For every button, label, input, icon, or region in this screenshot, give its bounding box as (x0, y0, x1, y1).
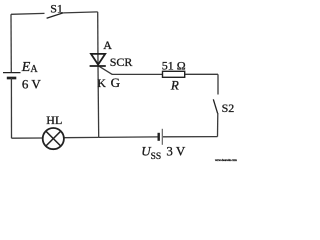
wire top left segment (11, 12, 45, 15)
battery EA negative plate (short thick) (7, 77, 16, 80)
wire bottom left segment (12, 137, 43, 139)
wire left vertical lower (10, 78, 12, 138)
wire SCR branch vertical upper (anode lead) (97, 12, 99, 66)
svg-text:K: K (97, 76, 106, 90)
svg-text:HL: HL (46, 113, 62, 127)
svg-text:SCR: SCR (110, 55, 133, 69)
svg-text:EA: EA (21, 60, 39, 75)
switch S2 blade (213, 99, 217, 113)
wire right vertical lower (below S2) (217, 113, 219, 137)
thyristor SCR cathode bar (90, 65, 106, 67)
svg-text:S1: S1 (50, 1, 63, 15)
battery USS negative plate (short thick) (157, 133, 159, 141)
svg-text:51 Ω: 51 Ω (162, 58, 186, 72)
wire top right segment (64, 12, 98, 13)
battery USS positive plate (long thin) (161, 129, 163, 145)
lamp HL circle (43, 128, 64, 149)
svg-text:S2: S2 (222, 101, 235, 115)
svg-text:wxw.dearedu.cxm: wxw.dearedu.cxm (215, 158, 237, 162)
resistor R body (163, 71, 185, 77)
svg-text:6 V: 6 V (22, 76, 42, 91)
wire right vertical upper (above S2) (217, 74, 219, 94)
wire gate horizontal (112, 73, 163, 75)
wire SCR branch vertical lower (cathode lead) (97, 65, 100, 137)
lamp HL cross diagonal 1 (46, 131, 61, 146)
wire resistor to right corner (185, 73, 218, 75)
wire junction to battery USS (99, 136, 158, 139)
battery EA positive plate (long thin) (3, 72, 21, 74)
wire battery USS to bottom right corner (163, 136, 218, 138)
thyristor SCR triangle (91, 54, 105, 65)
switch S1 blade (47, 13, 64, 18)
lamp HL cross diagonal 2 (46, 131, 61, 146)
svg-text:A: A (103, 38, 112, 52)
svg-text:R: R (170, 77, 179, 92)
wire gate diagonal from SCR (98, 66, 112, 75)
svg-text:G: G (111, 75, 120, 90)
svg-text:USS 3 V: USS 3 V (141, 144, 186, 162)
wire left vertical upper (10, 14, 12, 72)
wire lamp to junction segment (64, 136, 99, 138)
